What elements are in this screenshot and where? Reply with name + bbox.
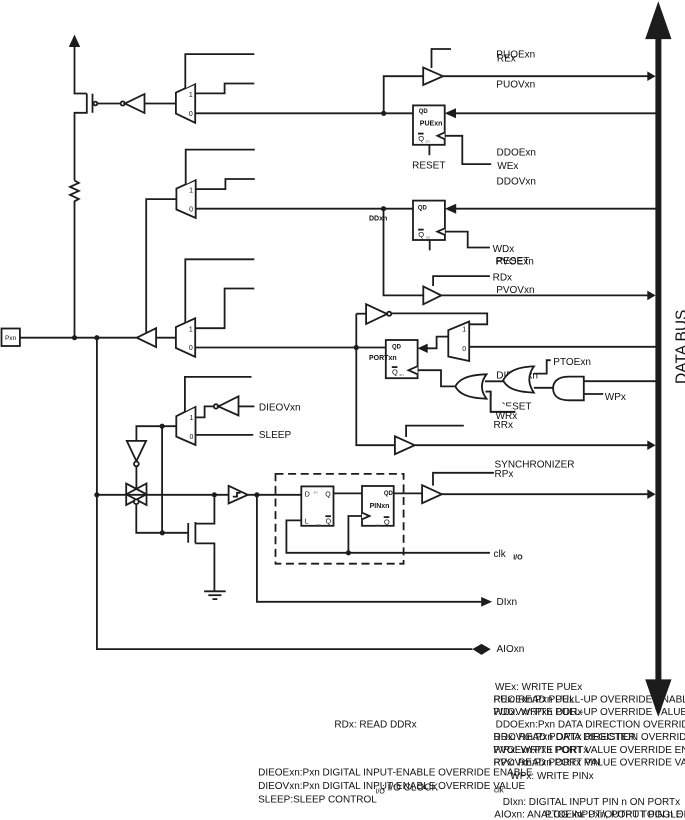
wire mux2 output to driver enable <box>146 199 176 333</box>
svg-text:sn: sn <box>376 523 380 528</box>
arrowhead to bus <box>647 291 655 301</box>
node junction <box>381 111 386 116</box>
node junction pin input <box>94 492 99 497</box>
svg-text:SLEEP:SLEEP CONTROL: SLEEP:SLEEP CONTROL <box>258 795 377 806</box>
arrowhead to bus <box>647 440 655 450</box>
svg-text:RPx: RPx <box>495 469 514 480</box>
transistor pMOS pull-up <box>75 94 98 181</box>
wire pin line Pxn <box>20 337 137 339</box>
wire clk to PINxn clock <box>348 516 362 553</box>
wire REx enable stub <box>432 49 452 68</box>
wire TG bottom to nMOS gate <box>136 505 188 533</box>
wire RDx enable <box>433 276 490 286</box>
svg-text:DDOExn: DDOExn <box>497 148 536 159</box>
svg-text:PVOExn: PVOExn <box>496 256 534 267</box>
wire VCC to pMOS source <box>75 47 87 94</box>
svg-text:0: 0 <box>462 346 466 353</box>
wire D input from mux4 with arrowhead <box>426 337 448 349</box>
wire latch1 Q to PINxn D <box>334 492 363 494</box>
wire inverter to transmission gate <box>135 466 137 489</box>
data bus arrow up <box>645 1 671 39</box>
wire D input from bus with arrowhead <box>455 208 656 210</box>
svg-text:RDx: RDx <box>493 273 512 284</box>
pin box Pxn <box>2 329 20 347</box>
node junction clk <box>346 550 351 555</box>
svg-text:DDOExn:Pxn DATA DIRECTION OVER: DDOExn:Pxn DATA DIRECTION OVERRIDE ENABL… <box>496 720 685 731</box>
svg-text:RDx: READ DDRx: RDx: READ DDRx <box>334 720 416 731</box>
wire RDx buffer to data bus <box>441 294 649 296</box>
clock chevron DDxn <box>437 228 445 235</box>
arrowhead DIxn <box>481 597 492 607</box>
svg-text:1: 1 <box>189 326 193 333</box>
ground <box>204 591 226 599</box>
svg-text:DIxn: DIxn <box>497 597 518 608</box>
arrowhead to bus <box>647 71 655 81</box>
wire mux1 input 0 to PUExn FF <box>195 112 413 114</box>
wire mux3 output to driver <box>156 337 176 339</box>
svg-text:QD: QD <box>392 345 402 351</box>
mux M2 (data direction override) <box>176 180 195 218</box>
svg-text:0: 0 <box>189 434 193 441</box>
svg-text:sn: sn <box>399 372 403 377</box>
wire mux3 select <box>185 259 254 323</box>
node junction DIxn tap <box>254 492 259 497</box>
inverter U4 (sleep, down) <box>127 441 146 466</box>
buffer RRx (read PORTx register) <box>395 436 415 454</box>
svg-text:1: 1 <box>189 415 193 422</box>
flip-flop PINxn <box>362 486 394 528</box>
wire RRx buffer to data bus <box>415 444 649 446</box>
wire RESET stub <box>428 145 430 155</box>
buffer REx (read pull-up) <box>423 68 443 86</box>
synchronizer dashed box <box>276 474 404 564</box>
node junction DDxn <box>381 206 386 211</box>
flip-flop PUExn <box>413 105 445 144</box>
wire D input from bus with arrowhead <box>456 112 656 114</box>
wire trunk pin down <box>97 338 473 649</box>
wire AND input from bus <box>584 380 656 382</box>
svg-text:Q: Q <box>326 519 332 526</box>
wire pMOS gate to inverter <box>97 103 120 105</box>
svg-text:PUOVxn: PUOVxn <box>496 80 535 91</box>
data bus arrow down <box>645 679 671 717</box>
mux M4 (port toggle) <box>448 322 469 362</box>
inverter U1 (pull-up driver) <box>121 94 145 113</box>
svg-text:: I/O CLOCK: : I/O CLOCK <box>382 783 438 794</box>
wire WRx over reset label <box>486 392 516 412</box>
svg-text:I/O: I/O <box>513 555 523 562</box>
wire RESET stub DDxn <box>429 240 431 250</box>
svg-text:DATA BUS: DATA BUS <box>674 310 685 384</box>
svg-text:DIEOExn:Pxn DIGITAL INPUT-ENAB: DIEOExn:Pxn DIGITAL INPUT-ENABLE OVERRID… <box>258 768 533 779</box>
svg-text:clk: clk <box>494 549 507 560</box>
node junction PORTxn <box>354 345 359 350</box>
svg-text:WPx: WPx <box>605 392 626 403</box>
svg-text:L: L <box>305 519 309 526</box>
svg-text:RESET: RESET <box>412 160 445 171</box>
svg-text:PVOVxn: PVOVxn <box>496 285 534 296</box>
wire OR1 bottom input (WRx) <box>486 392 516 412</box>
wire PORTxn clock from OR1 <box>418 370 456 386</box>
svg-text:PINxn: PINxn <box>370 503 390 510</box>
svg-text:DDOVxn: DDOVxn <box>497 177 536 188</box>
wire schmitt to latch <box>248 494 301 496</box>
svg-text:QD: QD <box>419 109 429 115</box>
wire mux5 select <box>185 377 252 412</box>
mux M1 (pull-up override) <box>176 84 195 123</box>
wire mux2 input 1 <box>196 179 255 189</box>
svg-text:AIOxn: AIOxn <box>497 644 525 655</box>
node junction sleep control <box>160 424 165 429</box>
wire trunk inverter/RRx <box>356 314 395 446</box>
svg-text:1: 1 <box>189 187 193 194</box>
svg-text:DIEOVxn: DIEOVxn <box>259 402 301 413</box>
arrowhead to bus <box>647 489 655 499</box>
svg-text:Q: Q <box>392 368 398 377</box>
buffer RPx (read pin) <box>422 485 442 503</box>
svg-text:PTOExn: Pxn, PORT TOGGLE OVERR: PTOExn: Pxn, PORT TOGGLE OVERRIDE ENABLE <box>545 809 685 820</box>
clock chevron PUExn <box>437 132 444 139</box>
wire mux5 output <box>136 426 176 441</box>
wire junction up to REx buffer <box>384 76 424 113</box>
wire RRx enable stub <box>406 426 464 437</box>
resistor (pull-up) <box>70 181 79 338</box>
wire mux3 input 1 <box>195 289 254 329</box>
wire junction down to nMOS gate <box>161 426 163 533</box>
svg-text:PTOExn: PTOExn <box>553 357 591 368</box>
wire junction down to RDx line <box>384 209 424 296</box>
svg-text:0: 0 <box>189 207 193 214</box>
wire RPx buffer to data bus <box>442 493 649 495</box>
transmission gate TG1 <box>126 484 146 506</box>
svg-text:SLEEP: SLEEP <box>259 430 292 441</box>
clock chevron PINxn <box>362 513 370 520</box>
svg-text:PUExn: PUExn <box>420 121 443 128</box>
wire PINxn Q to RPx buffer <box>394 492 422 494</box>
svg-text:RRx: RRx <box>494 420 513 431</box>
wire mux1 input 1 <box>195 84 254 94</box>
svg-text:QD: QD <box>384 491 394 497</box>
wire mux2 select <box>186 150 255 185</box>
buffer schmitt trigger <box>229 486 248 504</box>
or-gate OR2 (PTOExn) <box>503 366 534 392</box>
node junction nMOS drain <box>212 492 217 497</box>
svg-text:PVOExn:Pxn PORT VALUE OVERRIDE: PVOExn:Pxn PORT VALUE OVERRIDE ENABLE <box>494 745 685 756</box>
wire PTOExn to OR2 <box>534 360 551 373</box>
svg-text:WPx: WRITE PINx: WPx: WRITE PINx <box>510 771 593 782</box>
svg-text:Q: Q <box>418 230 424 239</box>
svg-text:PORTxn: PORTxn <box>369 355 397 362</box>
transistor nMOS (sleep pull-down) <box>188 497 214 591</box>
wire WDx clock <box>445 232 490 248</box>
svg-text:0: 0 <box>189 111 193 118</box>
flip-flop DDxn <box>413 201 445 240</box>
svg-text:sn: sn <box>426 139 430 144</box>
wire main input line <box>97 494 229 496</box>
svg-text:clk: clk <box>494 786 505 795</box>
wire mux5 input 1 <box>196 406 214 417</box>
svg-text:Pxn: Pxn <box>5 335 17 342</box>
mux M5 (digital input enable) <box>176 407 195 446</box>
node junction input path <box>94 335 99 340</box>
wire inverter out to mux4 input 1 (flag) <box>391 313 487 324</box>
svg-text:1: 1 <box>189 92 193 99</box>
svg-text:0: 0 <box>189 345 193 352</box>
wire inverter to DIEOVxn label <box>239 405 255 407</box>
arrowhead AIOxn (bidirectional diamond) <box>472 644 490 655</box>
svg-text:WEx: WEx <box>497 161 518 172</box>
or-gate OR1 (WRx) <box>455 374 486 398</box>
svg-text:1: 1 <box>462 326 466 333</box>
svg-text:sn: sn <box>426 235 430 240</box>
mux M3 (port value override) <box>176 318 195 357</box>
node junction nMOS gate <box>160 530 165 535</box>
svg-text:REx: REx <box>497 54 516 65</box>
wire OR2 bottom input to AND <box>534 387 553 389</box>
svg-text:DDxn: DDxn <box>369 215 387 222</box>
svg-text:WDx: WDx <box>493 244 515 255</box>
wire mux3 input 0 to PORTxn FF <box>195 347 386 349</box>
svg-text:WEx: WRITE PUEx: WEx: WRITE PUEx <box>495 682 582 693</box>
wire DIxn <box>257 495 481 602</box>
inverter U3 (DIEOVxn) <box>214 396 239 415</box>
inverter U2 (to mux4) <box>356 304 391 324</box>
svg-text:Q: Q <box>384 518 390 527</box>
wire OR1 top input to OR2 <box>485 380 504 382</box>
and-gate A1 (WPx) <box>553 377 584 401</box>
wire REx buffer to data bus <box>443 75 649 77</box>
svg-text:sn: sn <box>317 522 321 527</box>
power rail arrow (VCC) <box>69 35 80 48</box>
clock chevron PORTxn <box>409 366 418 374</box>
flip-flop PORTxn <box>386 340 418 378</box>
svg-text:sn: sn <box>314 489 318 494</box>
wire mux1 select <box>185 54 254 88</box>
wire WEx clock <box>445 136 492 164</box>
wire AND input WPx <box>584 393 603 395</box>
svg-text:Q: Q <box>418 134 424 143</box>
wire mux4 input 0 to bus <box>469 346 655 348</box>
wire RPx enable <box>433 473 494 486</box>
svg-text:D: D <box>305 491 310 498</box>
svg-text:DDOVxn:Pxn DATA DIRECTION OVER: DDOVxn:Pxn DATA DIRECTION OVERRIDE VALUE <box>494 732 685 743</box>
wire inverter to mux1 output <box>145 103 176 105</box>
buffer output driver <box>137 328 156 347</box>
svg-text:Q: Q <box>325 491 331 498</box>
latch L1 <box>301 486 333 526</box>
wire mux2 input 0 to DDxn FF <box>196 208 413 210</box>
wire mux5 input 0 SLEEP <box>196 434 254 436</box>
data bus line <box>655 37 661 681</box>
node junction pull-up <box>72 335 77 340</box>
svg-text:DIxn: DIGITAL INPUT PIN n ON P: DIxn: DIGITAL INPUT PIN n ON PORTx <box>503 797 680 808</box>
svg-text:PVOVxn:Pxn PORT VALUE OVERRIDE: PVOVxn:Pxn PORT VALUE OVERRIDE VALUE <box>494 757 685 768</box>
svg-text:QD: QD <box>418 206 428 212</box>
wire latch1 enable <box>286 520 490 552</box>
buffer RDx (read DDRx) <box>423 287 441 305</box>
